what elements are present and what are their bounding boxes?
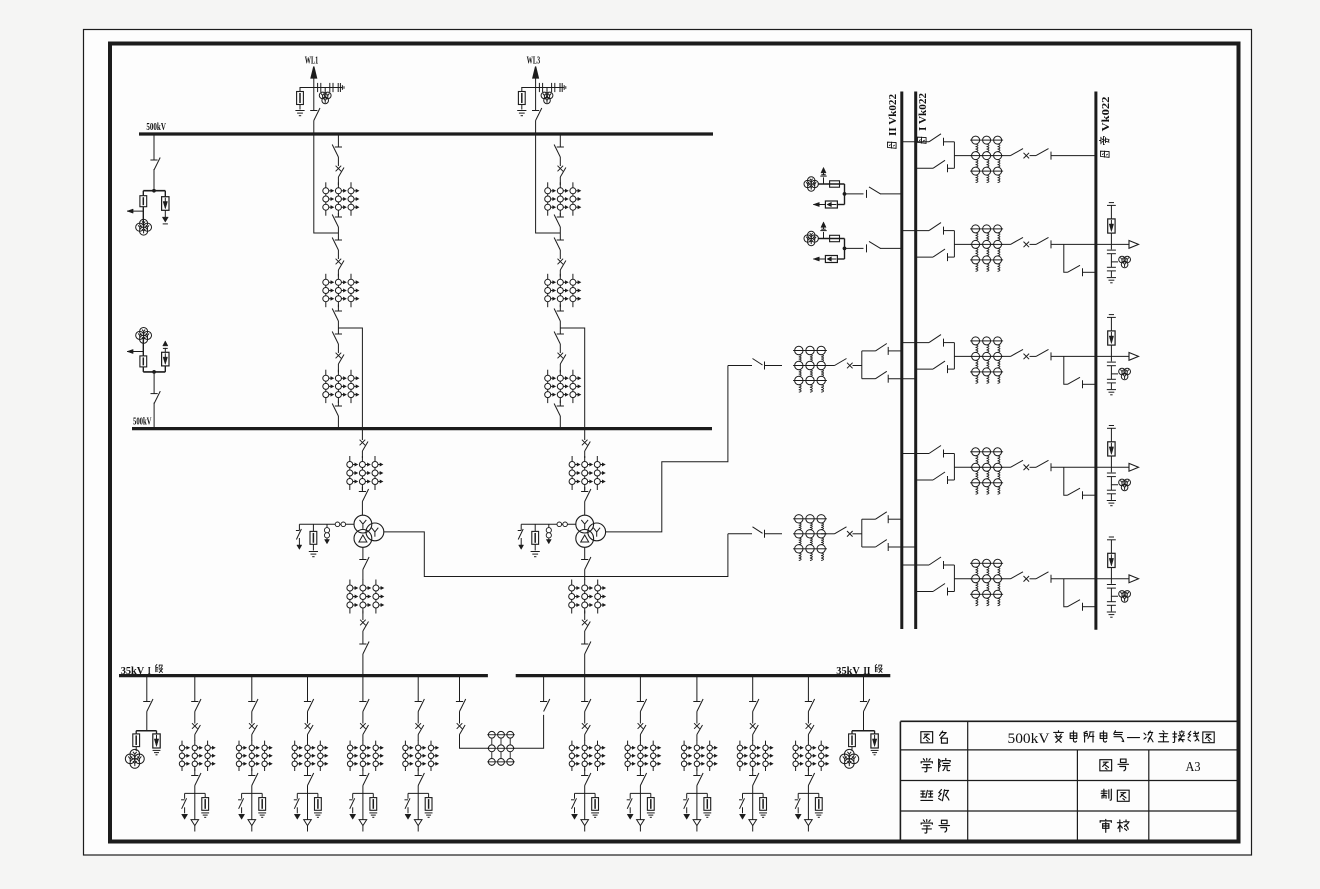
wire 35kV feeder II-4 — [752, 735, 754, 742]
ground T1 neutral — [309, 552, 318, 557]
wire 35kV feeder I-4 — [362, 712, 364, 724]
wire 35kV feeder II-1 outgoing — [584, 786, 586, 820]
disconnector 35kV feeder I-4 QS2 — [359, 773, 369, 786]
label 220kV bypass bus — [1099, 97, 1112, 158]
wire 35kV feeder I-3 arrester leg — [317, 793, 319, 797]
wire bus-II PT bay left leg — [142, 367, 144, 372]
wire 35kV feeder II-3 — [696, 735, 698, 742]
disconnector 35kV feeder I-5 QS2 — [415, 773, 425, 786]
ground 35kV feeder II-1 ES — [572, 814, 578, 819]
wire bay-3 line W2 main — [954, 355, 1010, 357]
current transformer group 35kV feeder II-3 TA — [681, 741, 717, 771]
svg-text:II: II — [863, 666, 870, 677]
wire T1 neutral arrester leg — [312, 524, 314, 531]
wire bay-2 line W1 — [1110, 262, 1112, 267]
wire — [559, 213, 561, 217]
disconnector string-1 QS4 — [332, 309, 342, 322]
wire 35kV feeder II-2 — [639, 735, 641, 742]
current transformer group 35kV feeder II-2 TA — [625, 741, 661, 771]
arrester 35kV feeder II-2 F — [647, 798, 654, 811]
selector disconnector bay-2 line W1 QS-II — [929, 223, 954, 235]
wire 35kV feeder II-5 tail — [807, 826, 809, 832]
line exit arrow bay-5 line W4 — [1129, 575, 1139, 583]
wire bus-tie — [459, 676, 461, 702]
wire 35kV feeder I-3 tail — [307, 826, 309, 832]
earthing switch 35kV feeder II-3 — [683, 798, 689, 813]
wire T1 to 35kV bus — [362, 654, 364, 676]
arrester line L1 F2 — [825, 201, 837, 208]
wire 35kV feeder II-4 arrester leg — [762, 793, 764, 797]
wire 35kV feeder II-5 — [807, 712, 809, 724]
wire line L1 main — [845, 193, 864, 195]
breaker T2 LV QF — [582, 620, 590, 631]
title block table — [900, 721, 1236, 841]
breaker T1 220kV QF — [835, 527, 853, 537]
svg-text:500kV: 500kV — [1008, 731, 1050, 747]
wire 35kV feeder II-4 ES leg — [742, 793, 744, 798]
wire line L2 main — [845, 247, 864, 249]
wire 35kV feeder I-2 tail — [251, 826, 253, 832]
ground 35kV feeder I-4 ES — [350, 814, 356, 819]
neutral CT pair T2 — [557, 522, 567, 527]
wire 35kV feeder I-4 arrester leg — [372, 793, 374, 797]
wire 35kV feeder II-3 outgoing — [696, 786, 698, 820]
wire bus-II PT bay — [142, 338, 144, 356]
ground 35kV feeder I-3 ES — [294, 814, 300, 819]
disconnector 35kV feeder II-1 QS1 — [581, 699, 591, 712]
wire 35kV feeder II-3 tee — [687, 792, 708, 794]
wire bay-1 bypass coupler main — [954, 155, 1010, 157]
selector disconnector bay-3 line W2 QS-II — [929, 335, 954, 347]
selector disconnector bay-1 bypass coupler QS-II — [929, 134, 954, 146]
capacitor bay-4 line W3 C1 — [1107, 473, 1116, 477]
wire 35kV bus-II PT — [863, 712, 865, 731]
wire 35kV feeder II-5 tee — [798, 792, 819, 794]
wire bus-I PT bay riser — [153, 134, 155, 160]
wire — [337, 177, 339, 185]
wire 35kV feeder I-2 — [251, 769, 253, 776]
arrester bus-II PT bay F2 — [162, 352, 169, 366]
breaker string-1 QF2 — [336, 259, 344, 270]
wire 35kV feeder II-1 — [584, 712, 586, 724]
wire bay-1 bypass coupler to bypass bus — [1051, 155, 1096, 157]
voltage transformer 35kV bus-II PT TV — [840, 749, 859, 768]
disconnector string-2 QS2 — [554, 215, 564, 228]
arrester 35kV bus-II PT F1 — [849, 734, 856, 747]
wire 35kV feeder I-1 — [194, 769, 196, 776]
wire 35kV feeder I-2 — [251, 676, 253, 702]
capacitor bay-4 line W3 C2 — [1107, 490, 1116, 494]
earthing switch arrow line L2 — [821, 222, 826, 229]
arrester bay-4 line W3 F — [1108, 442, 1115, 456]
ground 35kV bus-I PT — [153, 750, 161, 754]
voltage transformer bay-3 line W2 TV — [1119, 368, 1131, 380]
wire T2 — [853, 365, 862, 367]
wire 35kV feeder I-4 — [362, 769, 364, 776]
wire — [559, 270, 561, 277]
wire 35kV feeder I-2 tee — [242, 792, 263, 794]
capacitor bay-3 line W2 C1 — [1107, 362, 1116, 366]
cable termination 35kV feeder I-2 — [248, 820, 256, 826]
svg-text:500kV: 500kV — [146, 122, 166, 133]
wire 35kV feeder II-2 ES leg — [629, 793, 631, 798]
wire 35kV feeder I-5 — [417, 676, 419, 702]
disconnector string-2 QS3 — [554, 238, 564, 251]
ground bay-2 line W1 CVT top — [1107, 203, 1116, 206]
disconnector 35kV feeder I-1 QS1 — [191, 699, 201, 712]
earthing switch 35kV feeder I-2 — [238, 798, 244, 813]
wire 35kV bus-II PT right leg — [874, 731, 876, 734]
label tu-ming — [921, 731, 947, 743]
cable termination 35kV feeder II-2 — [637, 820, 645, 826]
wire T2 to 35kV bus — [584, 654, 586, 676]
wire WL1 PT leg — [324, 88, 326, 94]
disconnector bay-1 bypass coupler QS3 — [1036, 149, 1051, 160]
disconnector bus-tie QS2 — [540, 699, 550, 712]
earthing switch contact line L1 — [820, 175, 826, 176]
disconnector string-1 QS6 — [332, 404, 342, 417]
wire line L2 arrester branch — [837, 258, 844, 260]
wire string-1 line drop — [314, 134, 339, 233]
current transformer group 35kV feeder II-4 TA — [737, 741, 773, 771]
wire bay-2 line W1 — [1110, 233, 1112, 249]
disconnector string-1 QS3 — [332, 238, 342, 251]
wire bay-5 line W4 line out — [1051, 578, 1129, 580]
ground bay-4 line W3 CVT top — [1107, 426, 1116, 429]
disconnector 35kV feeder I-2 QS1 — [248, 699, 258, 712]
wire line L1 ES riser — [823, 177, 825, 184]
wire 35kV feeder II-4 — [752, 769, 754, 776]
wire bus-II PT bay right leg — [164, 366, 166, 372]
wire WL1 — [299, 105, 301, 110]
wire bay-4 line W3 — [1110, 485, 1112, 490]
wire 35kV feeder II-5 ES leg — [797, 793, 799, 798]
selector disconnector T1 to bus II — [862, 512, 902, 523]
bypass disconnector bay-5 line W4 — [1068, 600, 1083, 611]
wire — [559, 364, 561, 372]
bypass disconnector bay-4 line W3 — [1068, 488, 1083, 499]
wire bay-3 line W2 PT tap — [1111, 366, 1118, 374]
current transformer group 35kV feeder I-4 TA — [347, 741, 383, 771]
wire — [337, 250, 339, 259]
wire bay-3 line W2 — [1110, 345, 1112, 361]
label xue-hao — [921, 820, 949, 833]
neutral PT T2 — [546, 528, 551, 538]
cable termination 35kV feeder I-1 — [191, 820, 199, 826]
disconnector 35kV feeder I-2 QS2 — [248, 773, 258, 786]
disconnector string-1 QS1 — [332, 145, 342, 158]
wire 35kV feeder I-1 ES leg — [184, 793, 186, 798]
disconnector 35kV feeder II-4 QS2 — [749, 773, 759, 786]
wire 35kV feeder II-5 arrester leg — [818, 793, 820, 797]
label 220kV bus II — [887, 94, 899, 148]
wire T2 selector bar — [861, 351, 863, 379]
wire T2 LV — [584, 547, 586, 559]
disconnector string-2 QS6 — [554, 404, 564, 417]
ground 35kV feeder II-2 ES — [627, 814, 633, 819]
disconnector 35kV feeder I-3 QS1 — [304, 699, 314, 712]
current transformer group string-1 TA2 — [323, 274, 359, 307]
wire bus-II PT bay — [153, 372, 155, 394]
cable termination 35kV feeder I-3 — [304, 820, 312, 826]
capacitor bay-5 line W4 C1 — [1107, 585, 1116, 589]
line arrow line L1 — [813, 202, 825, 206]
arrester WL1 F — [297, 92, 304, 105]
ground 35kV feeder I-2 ES — [239, 814, 245, 819]
bus 35kV I — [119, 674, 488, 677]
wire 35kV bus-I PT right leg — [156, 731, 158, 734]
wire — [559, 305, 561, 312]
wire 35kV feeder II-5 outgoing — [807, 786, 809, 820]
disconnector T2 LV QS2 — [581, 642, 591, 655]
wire bay-3 line W2 to bypass bus — [1083, 383, 1096, 385]
arrester bay-2 line W1 F — [1108, 219, 1115, 233]
wire line L2 vertical — [844, 239, 846, 260]
bus 220kV bypass (vertical) — [1094, 92, 1097, 630]
wire — [337, 134, 339, 147]
line exit arrow bay-4 line W3 — [1129, 463, 1139, 471]
arrester line L1 F1 — [830, 181, 840, 187]
ground bay-2 line W1 CVT — [1107, 278, 1116, 283]
earthing switch 35kV feeder II-5 — [795, 798, 801, 813]
wire bay-3 line W2 bypass leg — [1064, 356, 1068, 384]
wire — [559, 157, 561, 166]
breaker bus-tie QF — [457, 723, 465, 734]
selector disconnector bay-4 line W3 QS-II — [929, 446, 954, 458]
wire T1 HV — [361, 429, 363, 440]
wire T1 220kV lead — [728, 533, 752, 535]
wire — [337, 157, 339, 166]
wire bus-I PT bay — [164, 210, 166, 217]
wire WL3 to bus I — [535, 121, 537, 135]
current transformer group 35kV feeder I-1 TA — [179, 741, 215, 771]
disconnector string-1 QS5 — [332, 332, 342, 345]
wire — [559, 250, 561, 259]
cable termination 35kV feeder II-3 — [693, 820, 701, 826]
neutral arrow T2 — [546, 538, 551, 544]
disconnector WL3 QS — [532, 108, 542, 121]
voltage transformer line L1 TV — [804, 177, 818, 191]
ground 35kV feeder II-3 arrester — [703, 813, 711, 817]
breaker 35kV feeder II-1 QF — [582, 723, 590, 734]
breaker T2 QF — [582, 440, 590, 451]
line exit arrow bay-2 line W1 — [1129, 241, 1139, 249]
wire T2 neutral — [521, 523, 576, 525]
CT/PT group bay-3 line W2 TA — [970, 337, 1003, 384]
wire bus-I PT bay left leg — [142, 191, 144, 196]
wire 35kV bus-I PT — [146, 712, 148, 731]
disconnector WL1 QS — [310, 108, 320, 121]
wire bay-5 line W4 bus-II selector — [902, 564, 929, 566]
disconnector bus-I PT bay QS — [150, 158, 160, 171]
CT/PT group T2 220kV TA — [793, 346, 827, 392]
ground 35kV feeder II-2 arrester — [647, 813, 655, 817]
wire bay-5 line W4 main — [954, 578, 1010, 580]
wire 35kV feeder II-2 — [639, 769, 641, 776]
wire 35kV feeder II-1 arrester leg — [594, 793, 596, 797]
voltage transformer bay-5 line W4 TV — [1119, 591, 1131, 603]
wire bay-2 line W1 to bypass bus — [1083, 271, 1096, 273]
arrester 35kV feeder II-3 F — [704, 798, 711, 811]
wire bus-II PT bay riser — [153, 403, 155, 429]
disconnector 35kV feeder II-3 QS1 — [693, 699, 703, 712]
selector disconnector bay-2 line W1 QS-I — [933, 249, 954, 261]
wire bay-2 line W1 CVT column — [1110, 205, 1112, 219]
wire 35kV feeder II-1 ES leg — [574, 793, 576, 798]
breaker 35kV feeder I-4 QF — [360, 723, 368, 734]
neutral earthing switch T1 — [296, 524, 302, 549]
breaker bay-4 line W3 QF — [1011, 460, 1030, 470]
wire bus-I PT bay — [153, 169, 155, 191]
arrester bus-I PT bay F2 — [162, 197, 169, 211]
selector disconnector bay-1 bypass coupler QS-I — [933, 160, 954, 172]
wire — [337, 344, 339, 353]
wire bay-5 line W4 PT tap — [1111, 588, 1118, 596]
arrester 35kV feeder I-4 F — [370, 798, 377, 811]
neutral PT T1 — [324, 528, 329, 538]
voltage transformer WL1 TV — [319, 92, 331, 104]
coupling capacitor WL1 C1 — [318, 83, 321, 92]
disconnector 35kV feeder II-2 QS2 — [637, 773, 647, 786]
ground 35kV feeder I-2 arrester — [258, 813, 266, 817]
wire 35kV feeder II-3 arrester leg — [706, 793, 708, 797]
wire 35kV feeder I-4 tee — [353, 792, 374, 794]
arrester 35kV feeder II-1 F — [592, 798, 599, 811]
disconnector 35kV feeder I-1 QS2 — [191, 773, 201, 786]
ground 35kV feeder II-5 ES — [795, 814, 801, 819]
grounding arrow bus-II PT bay — [163, 341, 168, 349]
bus 220kV II (vertical) — [900, 92, 903, 630]
coupling capacitor WL1 C2 — [330, 83, 333, 92]
wire 35kV feeder I-2 — [251, 712, 253, 724]
wire 35kV feeder II-4 tail — [752, 826, 754, 832]
wire — [337, 400, 339, 406]
wire bay-3 line W2 — [1110, 383, 1112, 389]
breaker 35kV feeder I-2 QF — [249, 723, 257, 734]
wire bay-4 line W3 main — [954, 466, 1010, 468]
wire line L2 PT branch — [818, 238, 845, 240]
line arrow line L2 — [813, 257, 825, 261]
wire — [559, 177, 561, 185]
wire string-2 line drop — [536, 134, 561, 233]
wire bay-4 line W3 — [1110, 494, 1112, 500]
breaker bay-3 line W2 QF — [1011, 349, 1030, 359]
wire T1 — [362, 570, 364, 581]
disconnector 35kV feeder II-5 QS1 — [805, 699, 815, 712]
wire — [337, 213, 339, 217]
current transformer group 35kV feeder II-5 TA — [793, 741, 829, 771]
wire 35kV feeder II-3 — [696, 676, 698, 702]
svg-text:II Vk022: II Vk022 — [888, 94, 899, 136]
wire 35kV feeder I-5 ES leg — [407, 793, 409, 798]
wire 35kV feeder I-3 — [307, 676, 309, 702]
breaker 35kV feeder I-1 QF — [192, 723, 200, 734]
wire 35kV bus-I PT — [146, 676, 148, 702]
wire T2 — [821, 365, 835, 367]
wire bay-3 line W2 bus-I selector — [916, 368, 933, 370]
wire 35kV feeder I-5 — [417, 769, 419, 776]
current transformer group 35kV feeder I-5 TA — [403, 741, 439, 771]
current transformer group string-2 TA2 — [545, 274, 581, 307]
arrester line L2 F2 — [825, 256, 837, 263]
wire bus-I PT bay right leg — [164, 191, 166, 197]
wire 35kV feeder II-5 — [807, 735, 809, 742]
wire 35kV feeder I-3 outgoing — [307, 786, 309, 820]
junction — [152, 189, 155, 192]
breaker T1 LV QF — [360, 620, 368, 631]
wire 35kV feeder I-5 — [417, 735, 419, 742]
arrester bay-3 line W2 F — [1108, 331, 1115, 345]
wire line WL1 — [313, 78, 315, 111]
disconnector string-2 QS5 — [554, 332, 564, 345]
breaker 35kV feeder II-5 QF — [806, 723, 814, 734]
wire bus-I PT bay — [142, 207, 144, 225]
wire 35kV feeder I-1 — [194, 735, 196, 742]
bus 220kV I (vertical) — [914, 92, 917, 630]
wire 35kV feeder II-5 — [807, 676, 809, 702]
wire T1 — [821, 533, 835, 535]
wire bay-5 line W4 — [1110, 596, 1112, 601]
neutral arrester T1 F — [310, 531, 317, 544]
wire bay-2 line W1 line out — [1051, 243, 1129, 245]
wire bay-2 line W1 — [1030, 243, 1037, 245]
wire T2 — [584, 487, 586, 492]
wire 35kV feeder II-1 tee — [575, 792, 596, 794]
wire line L1 vertical — [844, 184, 846, 205]
cable termination 35kV feeder I-5 — [414, 820, 422, 826]
wire T2 neutral arrester leg — [534, 524, 536, 531]
wire bay-4 line W3 PT tap — [1111, 477, 1118, 485]
wire 35kV feeder I-4 tail — [362, 826, 364, 832]
wire 35kV feeder II-4 tee — [743, 792, 764, 794]
breaker bay-5 line W4 QF — [1011, 572, 1030, 582]
wire T1 — [312, 544, 314, 550]
current transformer group 35kV feeder I-2 TA — [236, 741, 272, 771]
voltage transformer bay-2 line W1 TV — [1119, 256, 1131, 268]
wire bus-tie riser — [543, 676, 545, 702]
line WL1 arrow — [311, 67, 317, 79]
disconnector T1 220kV QS — [753, 527, 765, 538]
wire 35kV feeder I-1 — [194, 712, 196, 724]
selector disconnector bay-5 line W4 QS-I — [933, 584, 954, 596]
wire 35kV feeder I-4 ES leg — [352, 793, 354, 798]
wire — [559, 321, 561, 334]
wire WL3 arrester leg — [521, 88, 523, 92]
arrester 35kV feeder I-5 F — [425, 798, 432, 811]
ground 35kV bus-II PT — [871, 750, 879, 754]
wire WL3 coupling branch — [521, 87, 564, 89]
current transformer group 35kV feeder II-1 TA — [569, 741, 605, 771]
ground WL1 — [295, 111, 304, 116]
wire T2 — [765, 365, 783, 367]
bus 500kV I — [139, 132, 713, 135]
line exit arrow bay-3 line W2 — [1129, 353, 1139, 361]
capacitor bay-2 line W1 C1 — [1107, 250, 1116, 254]
wire string-2 transformer tap — [560, 328, 584, 429]
disconnector T2 220kV QS — [753, 359, 765, 370]
disconnector T1 LV QS — [359, 557, 369, 570]
wire bus-tie elbow — [460, 735, 489, 749]
wire — [559, 416, 561, 429]
wire bus-tie to bus II — [513, 715, 544, 748]
neutral earthing switch T2 — [518, 524, 524, 549]
wire 35kV bus-II PT — [863, 676, 865, 702]
ground 35kV feeder II-5 arrester — [815, 813, 823, 817]
voltage transformer line L2 TV — [804, 231, 818, 245]
wire 35kV bus-II PT left leg — [851, 731, 853, 734]
arrester bus-I PT bay F1 — [140, 196, 147, 207]
current transformer group T1 LV TA — [347, 580, 384, 614]
